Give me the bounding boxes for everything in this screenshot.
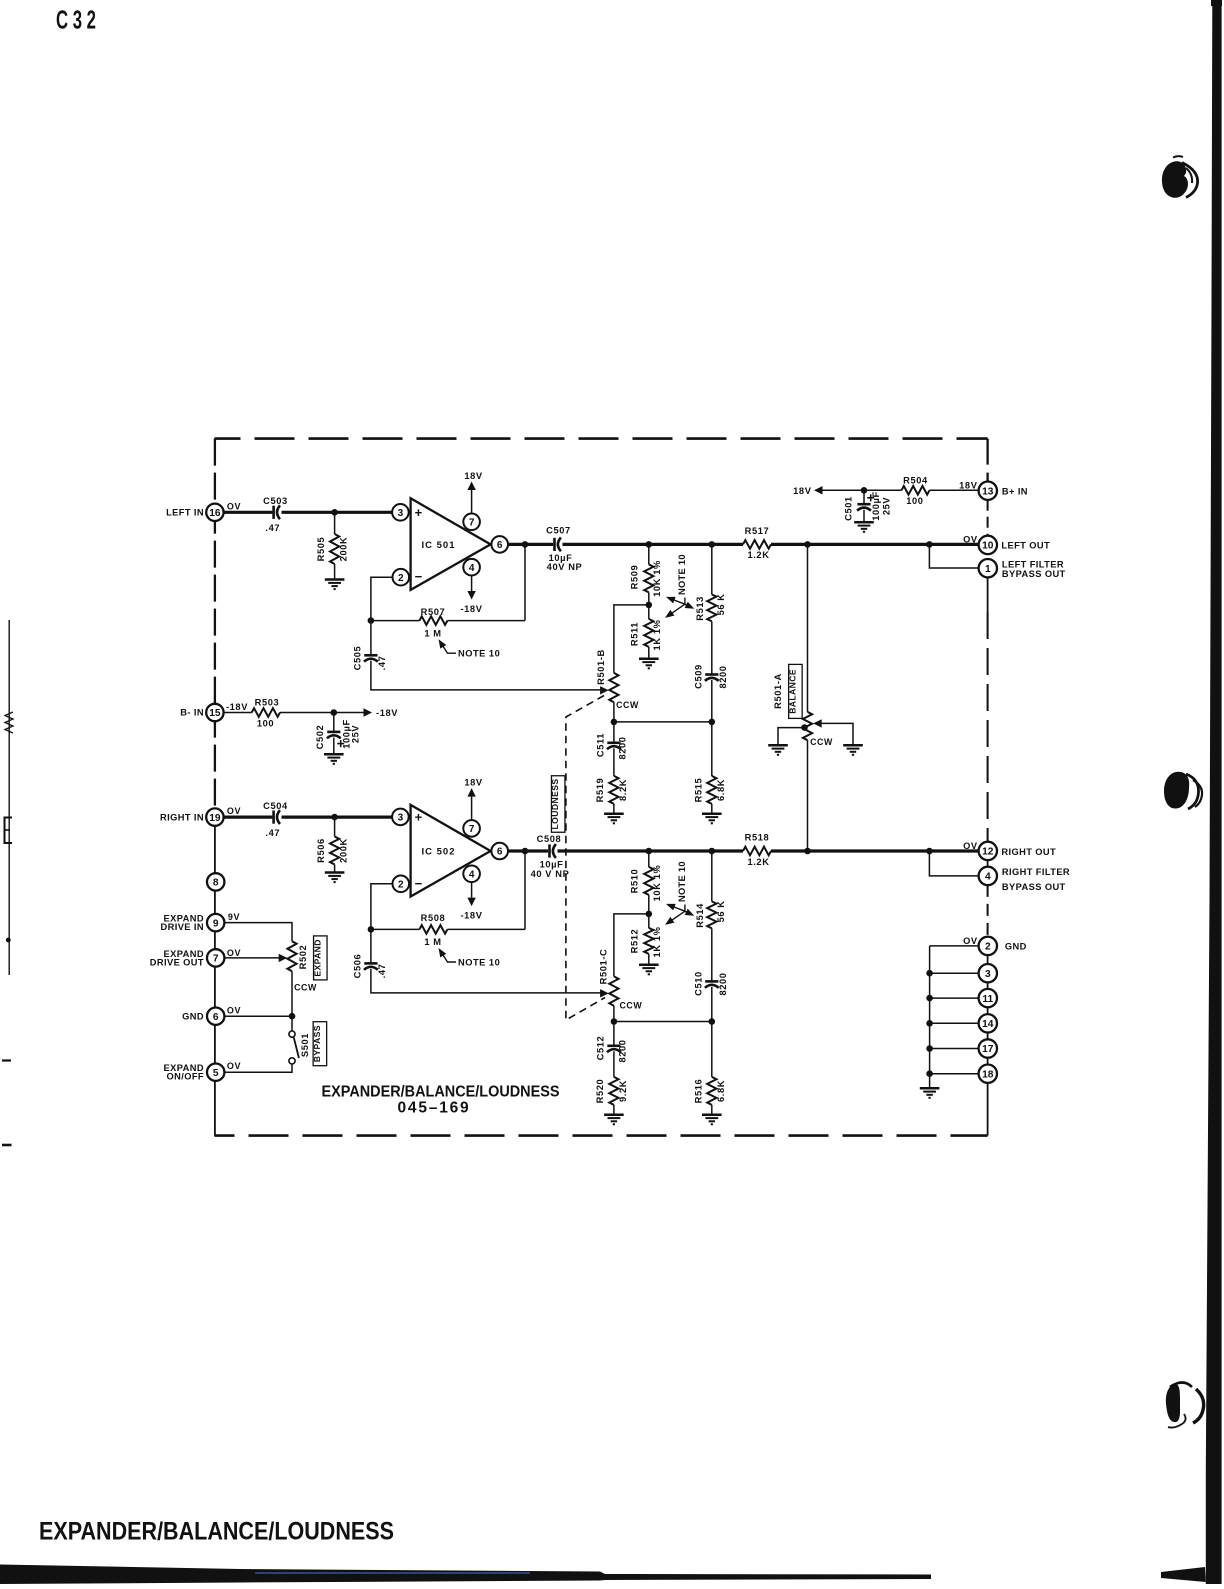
terminal 9 EXPAND DRIVE IN	[207, 914, 224, 931]
wire: IC501 pin 6 output to C507 (thick)	[508, 543, 553, 546]
svg-text:7: 7	[213, 954, 219, 965]
svg-text:.47: .47	[265, 828, 280, 838]
svg-text:OV: OV	[963, 841, 978, 851]
svg-text:12: 12	[982, 847, 994, 858]
svg-text:16: 16	[209, 508, 221, 519]
svg-text:R504: R504	[903, 475, 928, 485]
capacitor C501 100uF 25V electrolytic	[863, 490, 865, 503]
svg-text:R509: R509	[630, 565, 640, 590]
terminal 17	[979, 1039, 997, 1057]
wire: left filter bypass to output bus	[929, 544, 979, 568]
svg-text:25V: 25V	[881, 497, 891, 516]
wire: right filter bypass to output bus	[929, 851, 979, 876]
ground left of R501-A	[768, 744, 788, 747]
svg-text:IC 502: IC 502	[422, 847, 456, 858]
svg-text:R501-B: R501-B	[596, 649, 606, 685]
svg-text:1 M: 1 M	[424, 937, 441, 947]
svg-text:R508: R508	[421, 913, 446, 923]
scan artifact: left edge dash 1	[2, 1059, 11, 1061]
svg-text:+: +	[415, 505, 423, 520]
svg-text:BALANCE: BALANCE	[787, 669, 797, 714]
svg-text:10K 1%: 10K 1%	[652, 865, 662, 902]
svg-text:17: 17	[982, 1044, 994, 1055]
svg-text:-18V: -18V	[460, 604, 482, 614]
svg-text:−: −	[415, 569, 423, 584]
junction: R501-A left tap	[801, 724, 808, 731]
svg-text:C506: C506	[352, 954, 362, 979]
svg-text:100: 100	[906, 496, 923, 506]
terminal 2 GND	[979, 937, 997, 955]
wire: terminal 13 to R504	[930, 489, 980, 491]
svg-text:R513: R513	[695, 596, 705, 621]
wire: tap node to C510 node	[614, 1021, 712, 1023]
wire: RIGHT IN to C504 (thick)	[223, 815, 272, 818]
terminal 15 B-IN	[206, 704, 223, 721]
svg-text:BYPASS OUT: BYPASS OUT	[1002, 569, 1066, 579]
svg-text:C510: C510	[693, 971, 703, 996]
svg-text:8.2K: 8.2K	[618, 779, 628, 801]
svg-text:7: 7	[469, 824, 475, 835]
svg-text:ON/OFF: ON/OFF	[166, 1072, 204, 1082]
wire: C507 to R517 (thick)	[563, 543, 744, 546]
wire: IC502 pin2 to feedback node	[371, 884, 393, 930]
capacitor C509 8200	[711, 621, 713, 674]
wire: IC502 pin 6 to C508 (thick)	[508, 849, 548, 852]
resistor R514 56K	[711, 851, 713, 901]
capacitor C507 10uF 40V NP	[553, 538, 556, 551]
junction on bus (18)	[926, 1070, 933, 1077]
terminal 19 RIGHT IN	[206, 808, 223, 825]
svg-text:10: 10	[982, 541, 994, 552]
svg-text:C509: C509	[693, 664, 703, 689]
capacitor C502 100uF 25V electrolytic	[333, 713, 335, 732]
svg-text:C501: C501	[844, 496, 854, 521]
svg-text:LEFT FILTER: LEFT FILTER	[1002, 559, 1064, 569]
wire: terminal 17 to bus	[930, 1048, 979, 1050]
svg-text:OV: OV	[227, 806, 241, 816]
terminal 3	[979, 964, 997, 982]
svg-text:8200: 8200	[718, 972, 728, 995]
svg-text:100µF: 100µF	[871, 491, 881, 521]
junction: feedback node (R507/C505)	[368, 617, 375, 624]
svg-text:−: −	[415, 876, 423, 891]
svg-text:RIGHT FILTER: RIGHT FILTER	[1002, 867, 1070, 877]
junction: R510/R512 divider node	[646, 911, 653, 918]
terminal 13 B+ IN	[979, 482, 997, 500]
18V rail arrow	[814, 486, 823, 494]
junction on bus (14)	[926, 1020, 933, 1027]
wire: terminal 2 to ground bus	[930, 945, 979, 947]
svg-text:LEFT OUT: LEFT OUT	[1001, 540, 1050, 550]
ground below C502	[324, 753, 344, 756]
svg-text:4: 4	[985, 872, 991, 883]
svg-text:18: 18	[982, 1069, 994, 1080]
svg-text:6.8K: 6.8K	[716, 1080, 726, 1102]
terminal 7 EXPAND DRIVE OUT	[207, 949, 224, 966]
scan artifact: binder hole shadow middle	[1164, 772, 1189, 809]
svg-text:19: 19	[209, 813, 221, 824]
svg-text:5: 5	[213, 1068, 219, 1079]
svg-text:2: 2	[985, 942, 991, 953]
svg-text:NOTE 10: NOTE 10	[677, 554, 687, 595]
svg-text:EXPANDER/BALANCE/LOUDNESS: EXPANDER/BALANCE/LOUDNESS	[39, 1518, 394, 1546]
svg-text:C511: C511	[595, 733, 605, 757]
ground below R505	[325, 578, 345, 581]
svg-text:9.2K: 9.2K	[618, 1080, 628, 1102]
resistor R520 9.2K	[613, 1051, 615, 1077]
svg-text:2: 2	[398, 573, 404, 584]
svg-text:.47: .47	[377, 964, 387, 979]
wire: loudness tap node to C509 node	[614, 721, 712, 723]
svg-text:4: 4	[469, 869, 475, 880]
svg-text:8200: 8200	[718, 665, 728, 688]
junction: R510 branch node	[646, 848, 653, 855]
ground below R515	[702, 812, 722, 815]
junction: right filter bypass branch	[926, 848, 933, 855]
border: right edge dashes between terminals	[986, 439, 988, 482]
ground below R520	[604, 1113, 624, 1116]
scan artifact: bottom-right smear	[1161, 1567, 1206, 1582]
pin 4 of IC501 (V-)	[463, 559, 480, 576]
terminal 1 LEFT FILTER BYPASS OUT	[979, 559, 997, 577]
svg-text:OV: OV	[227, 1061, 241, 1071]
note 10 leader arrow (R508)	[440, 950, 456, 962]
svg-text:2: 2	[398, 879, 404, 890]
svg-text:S501: S501	[300, 1033, 310, 1057]
wire: terminal 11 to bus	[930, 997, 979, 999]
wire: divider node to R501-B top	[614, 605, 649, 673]
svg-text:18V: 18V	[793, 486, 812, 496]
resistor R519 8.2K	[613, 748, 615, 776]
resistor R518 1.2K	[743, 847, 771, 856]
junction: R502/S501/GND node	[289, 1013, 296, 1020]
svg-text:DRIVE IN: DRIVE IN	[161, 922, 205, 932]
svg-text:7: 7	[469, 517, 475, 528]
svg-text:18V: 18V	[464, 778, 483, 788]
pin 3 of IC501	[392, 504, 409, 521]
svg-text:CCW: CCW	[616, 700, 639, 710]
wire: C503 to op-amp pin 3 (thick)	[282, 511, 393, 514]
op-amp IC501	[411, 498, 491, 590]
svg-text:BYPASS OUT: BYPASS OUT	[1002, 882, 1066, 892]
resistor R517 1.2K (series, left out)	[743, 540, 771, 549]
svg-text:25V: 25V	[351, 725, 361, 744]
wiper arrow of R501-B	[600, 686, 609, 694]
svg-text:6: 6	[497, 540, 503, 551]
scan artifact: left edge bracket mark	[5, 818, 13, 844]
LOUDNESS boxed label	[551, 776, 565, 833]
svg-text:8: 8	[213, 878, 219, 889]
resistor R513 56K	[711, 544, 713, 594]
junction: R513 branch node	[709, 541, 716, 548]
junction: C510/R516 node	[709, 1018, 716, 1025]
junction: R509/R511 divider node	[646, 602, 653, 609]
wire: left edge solid run T19 to bottom corner	[214, 812, 216, 1136]
terminal 4 RIGHT FILTER BYPASS OUT	[979, 867, 997, 885]
scan artifact: binder hole shadow top	[1162, 161, 1188, 198]
svg-text:OV: OV	[227, 501, 241, 511]
svg-text:3: 3	[398, 813, 404, 824]
svg-text:OV: OV	[227, 948, 241, 958]
svg-text:1 M: 1 M	[424, 628, 441, 638]
resistor R506 200K	[334, 817, 336, 836]
ground below R506	[325, 871, 345, 874]
svg-text:R503: R503	[255, 697, 280, 707]
junction: loudness tap node (right)	[611, 1018, 618, 1025]
terminal 12 RIGHT OUT	[979, 842, 997, 860]
junction: output/feedback node IC502	[522, 848, 529, 855]
wire: R504 to 18V arrow	[821, 489, 902, 491]
wire: R502 bottom to GND node	[291, 971, 293, 1016]
terminal 8	[207, 873, 224, 890]
svg-text:10K 1%: 10K 1%	[652, 560, 662, 597]
svg-text:GND: GND	[1005, 941, 1027, 951]
svg-text:RIGHT IN: RIGHT IN	[160, 813, 204, 823]
svg-text:R520: R520	[595, 1079, 605, 1104]
junction: R514 branch node	[709, 848, 716, 855]
scan artifact: bottom scan band	[0, 1565, 931, 1585]
wire: terminal 15 to R503	[223, 712, 252, 714]
wire: R501-B bottom to loudness tap node	[613, 702, 615, 722]
svg-text:DRIVE OUT: DRIVE OUT	[150, 958, 204, 968]
pin 6 of IC501 (output)	[491, 536, 508, 553]
svg-text:R516: R516	[693, 1079, 703, 1104]
svg-text:C507: C507	[546, 526, 571, 536]
svg-text:-18V: -18V	[460, 910, 482, 920]
svg-text:IC 501: IC 501	[422, 540, 456, 551]
resistor R512 1K 1%	[644, 928, 653, 954]
junction: balance pot bottom node	[804, 848, 811, 855]
wiper arrow of R501-C	[600, 989, 609, 997]
ground below R512	[639, 963, 659, 966]
svg-text:18V: 18V	[464, 471, 483, 481]
pin 7 of IC501 (V+)	[463, 514, 480, 531]
wire: feedback up to output node IC502	[524, 851, 526, 929]
wire: terminal 7 to R502 wiper	[224, 957, 279, 959]
pin 2 of IC501	[393, 569, 410, 586]
svg-text:R510: R510	[630, 869, 640, 894]
svg-text:40 V NP: 40 V NP	[531, 869, 570, 879]
svg-text:R501-C: R501-C	[598, 949, 608, 985]
border: top dashed edge of board outline	[215, 437, 988, 440]
junction: R509 branch node	[646, 541, 653, 548]
switch S501 bypass	[291, 1016, 293, 1031]
svg-text:4: 4	[469, 563, 475, 574]
capacitor C503 .47	[272, 506, 275, 519]
wire: C505 to loudness pot R501-B wiper	[371, 661, 601, 690]
scan artifact: left edge dot	[6, 938, 11, 943]
svg-text:1: 1	[985, 564, 991, 575]
junction: input node / R505 tap	[331, 509, 338, 516]
wiper arrow of R502	[279, 954, 288, 962]
svg-text:.47: .47	[377, 656, 387, 671]
svg-text:6.8K: 6.8K	[716, 779, 726, 801]
potentiometer R501-C (loudness, right)	[609, 976, 618, 1005]
ground right of R501-A wiper	[843, 744, 863, 747]
junction on bus (17)	[926, 1045, 933, 1052]
wire: R501-C bottom to tap node	[613, 1006, 615, 1022]
dashed mechanical linkage R501-B/R501-C (loudness gang)	[566, 696, 605, 1021]
svg-text:RIGHT OUT: RIGHT OUT	[1001, 847, 1056, 857]
junction: balance pot branch	[804, 541, 811, 548]
junction on bus (3)	[926, 970, 933, 977]
svg-text:100: 100	[257, 719, 274, 729]
pin 4 of IC502 (V-)	[463, 866, 480, 883]
capacitor C512 8200	[613, 1022, 615, 1046]
supply arrow -18V below IC501	[471, 576, 473, 591]
resistor R504 100	[902, 486, 930, 495]
svg-text:LOUDNESS: LOUDNESS	[550, 779, 560, 830]
svg-text:R519: R519	[595, 778, 605, 803]
supply arrow 18V above IC501	[471, 490, 473, 513]
svg-text:NOTE 10: NOTE 10	[458, 649, 500, 659]
junction: right input node	[331, 814, 338, 821]
svg-text:200K: 200K	[338, 838, 348, 863]
svg-text:R501-A: R501-A	[773, 673, 783, 709]
junction: C509/R515 node	[709, 719, 716, 726]
svg-text:R506: R506	[316, 838, 326, 863]
svg-text:R511: R511	[630, 622, 640, 646]
wire: terminal 5 to S501	[224, 1064, 292, 1072]
border: bottom dashed edge of board outline	[215, 1134, 988, 1137]
svg-text:14: 14	[982, 1019, 994, 1030]
potentiometer R501-B (loudness, left)	[609, 673, 618, 702]
svg-text:56 K: 56 K	[716, 900, 726, 922]
svg-text:B- IN: B- IN	[180, 708, 204, 718]
capacitor C506 .47	[370, 929, 372, 963]
terminal 18	[979, 1065, 997, 1083]
svg-text:200K: 200K	[338, 537, 348, 562]
svg-text:CCW: CCW	[619, 1001, 642, 1011]
wire: right edge solid runs through terminal stacks	[987, 851, 989, 885]
svg-text:R507: R507	[421, 607, 446, 617]
wire: C504 to IC502 pin 3 (thick)	[282, 815, 393, 818]
scan artifact: left edge dash 2	[2, 1144, 12, 1147]
svg-text:R505: R505	[316, 537, 326, 562]
svg-text:OV: OV	[227, 1006, 241, 1016]
resistor R510 10K 1%	[648, 851, 650, 867]
svg-text:R502: R502	[298, 945, 308, 970]
resistor R503 100	[252, 708, 280, 717]
svg-text:C503: C503	[263, 496, 288, 506]
wire: feedback up to output node	[524, 544, 526, 620]
wire: R501-A bottom to right out bus	[807, 740, 809, 851]
svg-text:GND: GND	[182, 1012, 204, 1022]
svg-text:3: 3	[985, 969, 991, 980]
svg-text:C512: C512	[595, 1036, 605, 1061]
svg-text:40V NP: 40V NP	[547, 562, 583, 572]
wire: R503 to -18V arrow	[280, 712, 366, 714]
junction: feedback node (R508/C506)	[368, 926, 375, 933]
pin 3 of IC502	[392, 809, 409, 826]
wire: divider node to R501-C top	[614, 914, 649, 977]
wire: terminal 14 to bus	[930, 1022, 979, 1024]
scan artifact: left edge bleed line	[8, 620, 10, 975]
svg-text:.47: .47	[265, 523, 280, 533]
resistor R516 6.8K	[707, 1077, 716, 1105]
svg-text:56 K: 56 K	[716, 593, 726, 615]
svg-text:C504: C504	[263, 801, 288, 811]
terminal 6 GND	[207, 1008, 224, 1025]
wire: terminal 9 to R502 top	[224, 923, 292, 942]
wire: terminal 6 to node	[224, 1015, 292, 1017]
junction: left filter bypass branch	[926, 541, 933, 548]
svg-text:CCW: CCW	[810, 737, 833, 747]
wire: terminal 3 to bus	[930, 972, 979, 974]
svg-text:C 3 2: C 3 2	[56, 5, 96, 35]
svg-text:13: 13	[982, 486, 994, 497]
wire: C508 to R518 (thick)	[558, 849, 744, 852]
capacitor C505 .47	[370, 621, 372, 655]
terminal 11	[979, 989, 997, 1007]
svg-text:NOTE 10: NOTE 10	[458, 957, 500, 967]
scan artifact: right edge black binding bar	[1206, 0, 1222, 1584]
wire: terminal 18 to bus	[930, 1073, 979, 1075]
terminal 14	[979, 1014, 997, 1032]
ground below C501	[854, 521, 874, 524]
wire: LEFT IN signal to C503 (thick)	[223, 511, 272, 514]
svg-text:OV: OV	[963, 534, 978, 544]
wire: R501-A tap to left ground	[778, 728, 805, 745]
op-amp IC502	[411, 805, 491, 897]
resistor R507 1M feedback	[371, 620, 420, 622]
svg-text:8200: 8200	[617, 1039, 627, 1062]
ground below R511	[639, 657, 659, 660]
svg-text:BYPASS: BYPASS	[312, 1025, 322, 1062]
junction: loudness tap node (left)	[611, 719, 618, 726]
svg-text:R518: R518	[745, 833, 770, 843]
svg-text:C502: C502	[315, 725, 325, 750]
wire: C506 to loudness pot R501-C wiper	[371, 969, 601, 993]
svg-text:11: 11	[982, 994, 993, 1005]
svg-text:18V: 18V	[959, 480, 978, 490]
terminal 16 LEFT IN	[206, 504, 223, 521]
capacitor C504 .47	[272, 811, 275, 824]
svg-text:LEFT IN: LEFT IN	[166, 508, 204, 518]
svg-text:1.2K: 1.2K	[747, 550, 769, 560]
svg-text:OV: OV	[963, 936, 978, 946]
svg-text:R514: R514	[695, 903, 705, 928]
supply arrow 18V above IC502	[471, 797, 473, 820]
svg-text:+: +	[415, 810, 423, 825]
svg-text:9: 9	[213, 918, 219, 929]
-18V rail arrow	[364, 708, 373, 716]
svg-text:1K 1%: 1K 1%	[652, 926, 662, 957]
capacitor C508 10uF 40V NP	[548, 844, 551, 857]
junction on bus (11)	[926, 995, 933, 1002]
scan artifact: left edge resistor fragment	[5, 712, 13, 733]
wire: IC501 pin2 to feedback node	[371, 577, 393, 620]
svg-text:C508: C508	[537, 834, 562, 844]
resistor R511 1K 1%	[644, 619, 653, 647]
note 10 leader arrow (R507)	[440, 642, 456, 654]
svg-text:R517: R517	[745, 526, 770, 536]
pin 6 of IC502 (output)	[491, 843, 508, 860]
pin 2 of IC502	[393, 876, 410, 893]
border: left dashed edge (upper)	[214, 439, 216, 812]
junction: C502 node	[331, 709, 338, 716]
svg-text:NOTE 10: NOTE 10	[677, 861, 687, 902]
ground below R519	[604, 812, 624, 815]
wire: R517 to terminal 10 (thick)	[771, 543, 979, 546]
potentiometer R502 expand	[287, 941, 296, 971]
svg-text:6: 6	[497, 847, 503, 858]
svg-text:-18V: -18V	[226, 702, 248, 712]
capacitor C510 8200	[711, 928, 713, 981]
supply arrow -18V below IC502	[471, 882, 473, 897]
svg-text:1K 1%: 1K 1%	[652, 619, 662, 650]
junction: C501 node	[861, 487, 868, 494]
